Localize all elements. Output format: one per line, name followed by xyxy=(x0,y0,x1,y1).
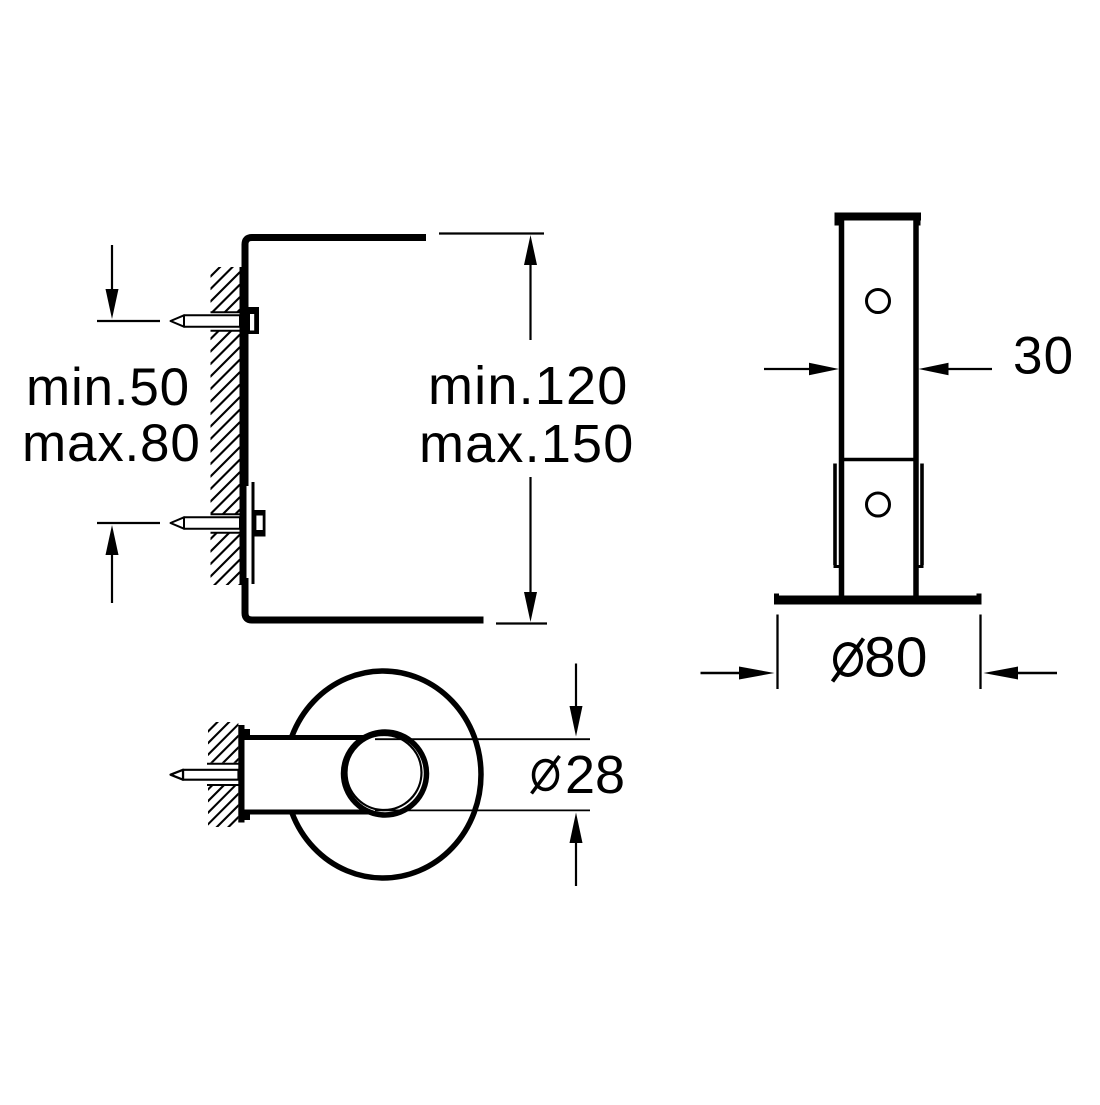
lower fixing hole xyxy=(867,493,890,516)
wall hatching (top view) xyxy=(208,701,240,883)
wall surface line (side view) xyxy=(240,267,247,585)
drill hole lines (top view) xyxy=(207,764,239,785)
svg-text:max.150: max.150 xyxy=(419,414,635,474)
svg-text:min.120: min.120 xyxy=(428,356,629,416)
svg-text:30: 30 xyxy=(1013,327,1074,386)
dia 80 left arrow xyxy=(701,672,746,675)
height dimension lower arrow xyxy=(529,477,531,600)
dimension arrow above min.50 xyxy=(111,245,113,295)
height dimension upper arrow xyxy=(524,235,537,265)
upper fixing hole xyxy=(867,290,890,313)
svg-text:28: 28 xyxy=(565,745,625,805)
dimension tick at lower screw xyxy=(97,522,160,524)
svg-text:80: 80 xyxy=(864,626,927,690)
drill hole lines lower screw xyxy=(211,514,240,532)
drill hole lines upper screw xyxy=(211,312,240,330)
width 30 dimension right arrow xyxy=(919,363,949,376)
roll circle (toilet paper roll) xyxy=(285,671,481,878)
lower wall screw xyxy=(171,517,241,528)
bracket profile (side view) xyxy=(245,238,484,621)
wall surface line (top view) xyxy=(238,725,244,823)
dia 28 upper arrow xyxy=(575,664,577,713)
holder arm xyxy=(245,740,380,810)
wall screw (top view) xyxy=(171,770,239,780)
sleeve joint line xyxy=(839,458,919,462)
dimension tick at upper screw xyxy=(97,320,160,322)
front view top cap xyxy=(835,213,922,221)
arm collar flange xyxy=(242,729,251,820)
height dimension top tick xyxy=(439,232,544,234)
dia 80 right arrow xyxy=(984,667,1019,680)
rod inner circle xyxy=(347,735,422,810)
svg-text:min.50: min.50 xyxy=(26,358,190,417)
height dimension bottom tick xyxy=(496,622,547,624)
sleeve outer walls xyxy=(833,464,837,566)
front view column sides xyxy=(839,217,845,600)
lower screw anchor nut xyxy=(252,510,266,537)
lower mounting plate xyxy=(247,486,252,578)
wall hatching (side view) xyxy=(210,247,240,640)
base plate xyxy=(774,596,981,605)
diameter symbol of dia 80 xyxy=(833,639,864,682)
upper screw anchor nut xyxy=(247,307,259,334)
diameter symbol of dia 28 xyxy=(532,756,560,794)
upper wall screw xyxy=(171,315,241,326)
rod outer circle xyxy=(344,732,427,815)
width 30 dimension left arrow xyxy=(764,368,818,370)
svg-text:max.80: max.80 xyxy=(22,414,201,473)
dia 28 extension lines xyxy=(375,738,590,740)
dimension arrow below max.80 xyxy=(106,525,119,555)
dia 28 lower arrow xyxy=(570,813,583,844)
dia 80 extension lines xyxy=(776,615,778,690)
